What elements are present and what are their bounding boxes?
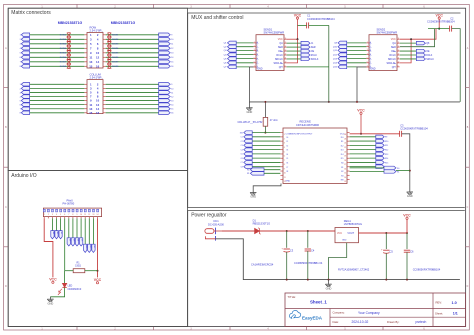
node port A2 (Arduino pin 4)	[55, 231, 58, 239]
svg-text:I6: I6	[287, 162, 289, 164]
svg-text:LM7805CDTAG: LM7805CDTAG	[344, 222, 362, 226]
node ROW8 net label right	[107, 64, 111, 68]
wire SEND1 input Q4	[236, 54, 253, 56]
svg-text:I13: I13	[341, 150, 344, 152]
wire REG1 gnd pin	[329, 243, 347, 280]
wire LED cathode to GND	[50, 288, 64, 297]
svg-text:VCC: VCC	[278, 38, 283, 41]
svg-text:11: 11	[398, 58, 400, 60]
svg-text:Arduino I/O: Arduino I/O	[11, 173, 36, 179]
LED NCD0603C0	[62, 283, 66, 287]
svg-text:QG: QG	[370, 61, 372, 65]
EasyEDA logo	[289, 310, 300, 318]
ground symbol (RECEIVE right)	[407, 191, 413, 193]
svg-text:C6: C6	[240, 158, 242, 160]
frame zone tick marks right	[465, 87, 469, 89]
node port C4 (RECEIVE left)	[244, 148, 252, 152]
wire RECEIVE input C5	[252, 153, 280, 155]
wire SEND2 input Q9	[347, 42, 366, 44]
node port Q8 (SEND2)	[416, 41, 425, 45]
wire header pin 7	[68, 218, 70, 237]
svg-text:D7: D7	[89, 245, 91, 247]
svg-text:2: 2	[367, 45, 368, 47]
svg-text:GND: GND	[370, 67, 376, 70]
svg-text:13: 13	[89, 60, 93, 64]
svg-text:16: 16	[398, 38, 400, 40]
node port OE (SEND1)	[301, 49, 310, 53]
svg-text:15: 15	[89, 111, 93, 115]
frame zone tick marks top	[76, 4, 78, 8]
svg-text:9: 9	[284, 168, 285, 170]
svg-text:SN74HC595PWR: SN74HC595PWR	[264, 31, 285, 35]
wire SEND1 input Q6	[236, 62, 253, 64]
svg-text:VOUT: VOUT	[347, 232, 354, 235]
svg-text:ROW4: ROW4	[112, 48, 119, 50]
svg-text:I4: I4	[287, 154, 289, 156]
wire LED anode	[64, 271, 66, 284]
wire common input	[252, 132, 280, 134]
wire header pin 3	[51, 218, 53, 230]
node port RCLK (SEND1)	[301, 53, 310, 57]
node port A3 (Arduino pin 5)	[59, 231, 62, 239]
node port J1 (SEND1)	[301, 41, 310, 45]
svg-text:16: 16	[285, 38, 287, 40]
svg-text:16: 16	[96, 111, 100, 115]
wire SEND2 SER riser	[400, 29, 435, 47]
svg-text:14: 14	[398, 46, 400, 48]
svg-text:5: 5	[254, 57, 255, 59]
wire 47ohm to gnd bus	[264, 102, 266, 118]
node port D5 (Arduino pin 10)	[79, 238, 82, 246]
node ROW1 net label left	[67, 33, 71, 37]
wire RECEIVE output R9	[350, 136, 376, 138]
wire VCC to C1	[298, 24, 307, 26]
svg-text:RCLK: RCLK	[276, 54, 283, 57]
svg-text:SRCLK: SRCLK	[311, 59, 319, 61]
wire SEND1 OE	[287, 50, 301, 52]
svg-text:C5: C5	[390, 250, 394, 254]
wire VCC stem to SEND1	[297, 19, 299, 39]
svg-text:ROW3: ROW3	[112, 44, 119, 46]
wire RECEIVE left EN wires	[264, 169, 280, 171]
svg-text:10: 10	[80, 214, 82, 216]
svg-text:Matrix connectors: Matrix connectors	[11, 10, 51, 16]
wire C6 riser	[406, 233, 408, 249]
node ROW4 net label right	[107, 46, 111, 50]
svg-text:QA: QA	[279, 42, 283, 45]
node ROW7 net label right	[107, 60, 111, 64]
node port RCLK (SEND2)	[416, 53, 425, 57]
svg-text:SRCLR▸: SRCLR▸	[386, 62, 395, 65]
svg-text:I1: I1	[287, 141, 289, 143]
node port SRCLK (SEND1)	[301, 57, 310, 61]
svg-text:11: 11	[89, 55, 92, 59]
svg-text:14: 14	[285, 46, 287, 48]
svg-text:14: 14	[96, 60, 100, 64]
wire header pin 6 to LED/R1 node	[64, 218, 66, 270]
svg-text:10: 10	[398, 62, 400, 64]
svg-text:QG: QG	[257, 61, 259, 65]
svg-text:11: 11	[84, 214, 86, 216]
wire ROW right wires	[106, 34, 159, 36]
wire C5 to gnd rail	[385, 253, 387, 279]
svg-text:SER: SER	[311, 47, 316, 49]
svg-text:C3: C3	[290, 248, 294, 252]
svg-text:D4: D4	[77, 239, 79, 241]
svg-text:D8: D8	[93, 245, 95, 247]
svg-text:2.54-2*8P_: 2.54-2*8P_	[90, 28, 104, 32]
svg-text:C8: C8	[240, 166, 242, 168]
wire SEND1 input Q2	[236, 46, 253, 48]
svg-text:16: 16	[96, 64, 100, 68]
svg-text:3: 3	[254, 49, 255, 51]
node ROW2 net label left	[67, 37, 71, 41]
junction SEND2 gnd/bus	[356, 101, 358, 103]
node ROW3 net label right	[107, 42, 111, 46]
svg-text:4: 4	[284, 147, 285, 149]
svg-text:SER: SER	[391, 46, 396, 49]
svg-text:RCLK: RCLK	[426, 55, 433, 57]
wire RECEIVE input C1	[252, 136, 280, 138]
node port SRCLK (SEND2)	[416, 57, 425, 61]
svg-text:1: 1	[284, 134, 285, 136]
svg-text:ROW5: ROW5	[60, 53, 67, 55]
svg-text:CC0603KRXTR9BB104: CC0603KRXTR9BB104	[400, 127, 428, 131]
node port OE (SEND2)	[416, 49, 425, 53]
svg-text:3: 3	[367, 49, 368, 51]
svg-text:ROW1: ROW1	[112, 35, 119, 37]
svg-text:C6: C6	[410, 250, 414, 254]
svg-text:ROW5: ROW5	[112, 53, 119, 55]
svg-text:GND: GND	[342, 240, 347, 242]
wire COLLUM right wires	[106, 83, 159, 85]
node port A1 (Arduino pin 3)	[51, 231, 54, 239]
frame zone tick marks bottom	[76, 327, 78, 331]
svg-text:ROW1: ROW1	[60, 35, 67, 37]
svg-text:SRCLK: SRCLK	[275, 58, 283, 61]
node port SER (SEND1)	[301, 45, 310, 49]
wire SEND2 input Q10	[347, 46, 366, 48]
node port Q2 (SEND1)	[228, 45, 237, 49]
wire VCC stem (RECEIVE)	[360, 114, 362, 134]
node port R13 (RECEIVE right)	[376, 152, 384, 156]
svg-text:4: 4	[254, 53, 255, 55]
svg-text:OE▸: OE▸	[278, 50, 283, 53]
wire SEND1 input Q3	[236, 49, 253, 51]
junction header pin14 / R1	[97, 270, 99, 272]
wire RECEIVE output R13	[350, 153, 376, 155]
svg-text:S0: S0	[397, 168, 399, 170]
wire gnd riser between SEND1 and SEND2	[328, 25, 330, 102]
wire RECEIVE output R14	[350, 157, 376, 159]
junction VCC/SEND1	[297, 38, 299, 40]
svg-text:QH': QH'	[279, 66, 284, 69]
svg-text:13: 13	[398, 50, 400, 52]
wire SEND1 VCC pin	[287, 38, 298, 40]
node port Q11 (SEND2)	[338, 49, 347, 53]
svg-text:CC0805KRXTR9BB104: CC0805KRXTR9BB104	[413, 267, 441, 271]
node port C3 (RECEIVE left)	[244, 144, 252, 148]
svg-text:GND: GND	[257, 67, 263, 70]
junction C3 riser	[286, 230, 288, 232]
svg-text:ROW8: ROW8	[60, 66, 67, 68]
wire SRCLR tie high (SEND2)	[400, 39, 411, 63]
svg-text:C3: C3	[240, 145, 242, 147]
wire header pin 8	[72, 218, 74, 237]
svg-text:6: 6	[254, 62, 255, 64]
wire SEND1 RCLK	[287, 54, 301, 56]
wire VCC stem (SEND2)	[438, 19, 440, 29]
svg-text:15: 15	[398, 42, 400, 44]
svg-text:RCLK: RCLK	[311, 55, 318, 57]
wire SEND1 QH prime	[287, 66, 329, 68]
svg-text:GND: GND	[326, 286, 332, 290]
wire power gnd rail	[216, 239, 460, 280]
svg-text:D2: D2	[68, 239, 70, 241]
wire R1 right to VCC rail	[85, 270, 98, 272]
svg-text:10: 10	[285, 62, 287, 64]
svg-text:I15: I15	[341, 158, 344, 160]
svg-text:1.0: 1.0	[452, 301, 457, 305]
svg-text:I3: I3	[287, 150, 289, 152]
svg-text:D5: D5	[81, 239, 83, 241]
svg-text:C1: C1	[240, 137, 242, 139]
node port SIG (common)	[244, 131, 252, 135]
wire RECEIVE input C8	[252, 166, 280, 168]
ground symbol (RECEIVE)	[250, 192, 256, 194]
svg-text:OE: OE	[311, 51, 315, 53]
svg-text:ROW8: ROW8	[112, 66, 119, 68]
node ROW3 net label left	[67, 42, 71, 46]
svg-text:TITLE:: TITLE:	[288, 295, 297, 299]
wire SRCLR tie high (SEND1)	[287, 39, 298, 63]
svg-text:16: 16	[344, 168, 346, 170]
svg-text:2: 2	[254, 45, 255, 47]
wire C4 riser	[307, 231, 309, 248]
svg-text:RVT2A100M0807_CT2462: RVT2A100M0807_CT2462	[338, 267, 370, 271]
svg-text:6: 6	[284, 156, 285, 158]
node ROW5 net label right	[107, 51, 111, 55]
svg-text:150Ω: 150Ω	[75, 265, 81, 268]
svg-text:S2: S2	[341, 171, 343, 173]
svg-text:psrtech: psrtech	[416, 320, 427, 324]
wire SEND1 SRCLK	[287, 58, 301, 60]
wire SEND2 input Q14	[347, 62, 366, 64]
svg-text:GND: GND	[250, 195, 256, 199]
svg-text:Date:: Date:	[333, 320, 340, 324]
svg-text:12: 12	[398, 54, 400, 56]
node ROW4 net label left	[67, 46, 71, 50]
svg-text:I2: I2	[287, 145, 289, 147]
node ROW7 net label left	[67, 60, 71, 64]
svg-text:ROW6: ROW6	[112, 57, 119, 59]
wire C1 to gnd riser	[309, 24, 329, 26]
svg-text:11: 11	[284, 177, 286, 179]
svg-text:17: 17	[344, 164, 346, 166]
wire header pin 12	[88, 218, 90, 244]
svg-text:19: 19	[344, 156, 346, 158]
svg-text:C4: C4	[240, 149, 242, 151]
svg-text:ROW6: ROW6	[60, 57, 67, 59]
node port Q15 (SEND2)	[338, 65, 347, 69]
svg-text:Sheet_1: Sheet_1	[310, 300, 327, 305]
svg-text:20: 20	[344, 151, 346, 153]
node port D3 (Arduino pin 8)	[71, 238, 74, 246]
node port C1 (RECEIVE left)	[244, 135, 252, 139]
node ROW8 net label left	[67, 64, 71, 68]
node port D6 (Arduino pin 11)	[84, 244, 87, 252]
svg-text:NCD0603C0: NCD0603C0	[68, 288, 82, 291]
svg-text:QA: QA	[392, 42, 396, 45]
wire ROW left wires	[30, 34, 85, 36]
svg-text:10: 10	[96, 51, 100, 55]
wire SEND1 input Q1	[236, 42, 253, 44]
svg-text:PH-00780: PH-00780	[63, 202, 75, 206]
svg-text:I12: I12	[341, 145, 344, 147]
svg-text:5: 5	[367, 57, 368, 59]
node port Q5 (SEND1)	[228, 57, 237, 61]
svg-text:3: 3	[52, 214, 53, 216]
svg-text:14: 14	[97, 214, 99, 216]
node port C5 (RECEIVE left)	[244, 152, 252, 156]
wire RECEIVE output R12	[350, 149, 376, 151]
svg-text:C4: C4	[311, 248, 315, 252]
svg-text:10: 10	[284, 173, 286, 175]
wire header pin 9	[76, 218, 78, 237]
svg-text:VCC: VCC	[337, 232, 342, 235]
svg-text:SER: SER	[278, 46, 283, 49]
svg-text:24: 24	[344, 134, 346, 136]
svg-text:12: 12	[88, 214, 90, 216]
svg-text:ROW2: ROW2	[60, 39, 67, 41]
wire C5 riser	[385, 233, 387, 249]
node port D8 (Arduino pin 13)	[92, 244, 95, 252]
junction C5 riser	[385, 232, 387, 234]
svg-text:R15: R15	[385, 162, 388, 164]
svg-text:15: 15	[285, 42, 287, 44]
svg-text:VCC: VCC	[391, 38, 396, 41]
svg-text:6: 6	[367, 62, 368, 64]
wire RECEIVE input C7	[252, 161, 280, 163]
svg-text:9: 9	[285, 66, 286, 68]
svg-text:3: 3	[284, 143, 285, 145]
svg-text:GND: GND	[286, 181, 291, 183]
node port R16 (RECEIVE right)	[376, 165, 384, 169]
wire VCC stem (output)	[406, 219, 408, 233]
wire C6 to gnd rail	[406, 252, 408, 279]
node ROW1 net label right	[107, 33, 111, 37]
svg-text:9: 9	[398, 66, 399, 68]
svg-text:1/1: 1/1	[453, 312, 458, 316]
wire jack to D1	[222, 230, 255, 232]
wire SEND2 RCLK	[400, 54, 417, 56]
wire SEND1 input Q7	[236, 66, 253, 68]
node port Q6 (SEND1)	[228, 61, 237, 65]
svg-text:A2: A2	[56, 232, 59, 234]
svg-text:DC-005-A200: DC-005-A200	[208, 222, 224, 226]
wire RECEIVE output R11	[350, 144, 376, 146]
svg-text:GND: GND	[407, 194, 413, 198]
wire header pin 5	[60, 218, 62, 230]
wire header pin 4	[56, 218, 58, 230]
wire RECEIVE input C4	[252, 149, 280, 151]
frame zone tick marks left	[4, 87, 9, 89]
node port D2 (Arduino pin 7)	[67, 238, 70, 246]
svg-text:CC0603KRXTR9BB104: CC0603KRXTR9BB104	[427, 20, 455, 24]
node port D7 (Arduino pin 12)	[88, 244, 91, 252]
junction EN/gnd drop	[409, 170, 411, 172]
junction SEND2 VCC	[410, 38, 412, 40]
capacitor C5 RVT2A100M0807_CT2462	[383, 249, 389, 251]
svg-text:22: 22	[344, 143, 346, 145]
svg-text:15: 15	[344, 173, 346, 175]
svg-text:C5: C5	[240, 154, 242, 156]
node port Q10 (SEND2)	[338, 45, 347, 49]
svg-text:R9: R9	[385, 137, 387, 139]
node port Q3 (SEND1)	[228, 49, 237, 53]
svg-text:1: 1	[367, 42, 368, 44]
node ROW6 net label right	[107, 55, 111, 59]
svg-text:47 ohm: 47 ohm	[270, 119, 278, 122]
wire 47ohm to common node	[264, 126, 266, 132]
svg-text:QH': QH'	[392, 66, 397, 69]
wire header pin 11	[84, 218, 86, 244]
svg-text:R1: R1	[247, 173, 249, 175]
wire C7 to gnd drop	[402, 134, 410, 192]
wire SEND2 OE	[400, 50, 417, 52]
svg-text:ROW7: ROW7	[60, 62, 67, 64]
svg-text:11: 11	[285, 58, 287, 60]
svg-text:I5: I5	[287, 158, 289, 160]
svg-text:R11: R11	[385, 145, 388, 147]
svg-text:A3: A3	[60, 232, 63, 234]
svg-text:Power regualtor: Power regualtor	[191, 213, 227, 219]
wire RECEIVE output R15	[350, 161, 376, 163]
svg-text:CC0805KRXTR9BB1 04: CC0805KRXTR9BB1 04	[294, 261, 323, 265]
svg-text:2.54-2*8P_: 2.54-2*8P_	[90, 75, 104, 79]
svg-text:13: 13	[285, 50, 287, 52]
wire VCC red wire from header pin 1	[44, 218, 53, 277]
junction riser/gnd bus	[328, 101, 330, 103]
svg-text:8: 8	[284, 164, 285, 166]
junction VCC riser	[406, 232, 408, 234]
section box Power regulator	[188, 211, 465, 327]
ground symbol (power)	[328, 280, 330, 285]
svg-text:RCLK: RCLK	[389, 54, 396, 57]
node port D4 (Arduino pin 9)	[75, 238, 78, 246]
svg-text:ROW7: ROW7	[112, 62, 119, 64]
svg-text:12: 12	[285, 54, 287, 56]
junction gnd rail dots	[286, 279, 288, 281]
svg-text:Sheet:: Sheet:	[435, 311, 443, 315]
node port R12 (RECEIVE right)	[376, 148, 384, 152]
svg-text:I14: I14	[341, 154, 344, 156]
svg-text:13: 13	[92, 214, 94, 216]
svg-text:2024-10-02: 2024-10-02	[352, 320, 369, 324]
svg-text:4: 4	[56, 214, 57, 216]
node port R14 (RECEIVE right)	[376, 156, 384, 160]
svg-text:C2: C2	[240, 141, 242, 143]
svg-text:S1: S1	[341, 167, 343, 169]
svg-text:ROW3: ROW3	[60, 44, 67, 46]
wire SEND2 input Q12	[347, 54, 366, 56]
title block	[285, 293, 466, 326]
wire RECEIVE VCC rail	[350, 133, 400, 135]
svg-text:2: 2	[284, 138, 285, 140]
wire SEND2 SRCLK	[400, 58, 417, 60]
node port Q14 (SEND2)	[338, 61, 347, 65]
svg-text:COMMON INPUT/OUTPUT: COMMON INPUT/OUTPUT	[286, 133, 314, 135]
